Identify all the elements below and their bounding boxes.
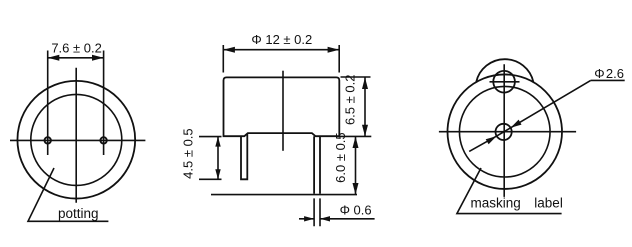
svg-text:masking: masking [471,196,521,211]
svg-text:Φ 12 ± 0.2: Φ 12 ± 0.2 [251,32,312,47]
svg-text:6.0 ± 0.5: 6.0 ± 0.5 [333,132,348,183]
svg-text:potting: potting [58,206,99,221]
svg-text:6.5 ± 0.2: 6.5 ± 0.2 [342,75,357,126]
svg-text:Φ 0.6: Φ 0.6 [340,202,372,217]
svg-text:Φ2.6: Φ2.6 [594,66,624,81]
svg-text:7.6 ± 0.2: 7.6 ± 0.2 [51,41,102,56]
svg-text:4.5 ± 0.5: 4.5 ± 0.5 [181,128,196,179]
svg-text:label: label [534,196,563,211]
